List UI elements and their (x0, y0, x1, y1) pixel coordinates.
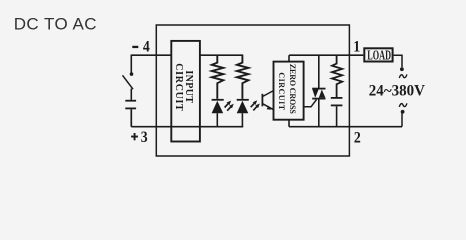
wire switch to battery (130, 89, 132, 100)
svg-text:1: 1 (353, 38, 360, 55)
input circuit block (171, 41, 200, 142)
resistor R2 (237, 55, 249, 99)
LED D2 triangle (237, 101, 249, 114)
AC source bottom dot (401, 110, 405, 114)
resistor R1 (212, 55, 224, 99)
snubber capacitor C1 bottom plate (331, 105, 343, 107)
wire capacitor to bottom rail (336, 106, 338, 126)
triac T1 gate wire (304, 100, 317, 107)
wire bottom DC rail over box (171, 126, 200, 128)
triac T1 cathode wire (318, 100, 320, 127)
LED D1 cathode bar (212, 99, 224, 101)
AC source top dot (400, 67, 404, 71)
phototransistor Q1 base bar (262, 94, 264, 107)
load label (367, 49, 391, 64)
wire battery to bottom rail (131, 109, 243, 126)
svg-text:LOAD: LOAD (367, 49, 391, 64)
bottom AC rail (289, 126, 402, 128)
label terminal 2 (354, 130, 361, 147)
label terminal 3 (+ 3) (131, 129, 148, 146)
LED D2 emission arrows to optocoupler (251, 100, 260, 110)
snubber resistor R3 (332, 55, 342, 97)
wire LED D2 to bottom rail (241, 113, 243, 127)
input circuit label (173, 63, 194, 111)
wire AC source to bottom rail (401, 112, 403, 127)
phototransistor Q1 emitter with arrow (263, 104, 274, 110)
AC source top tilde (399, 74, 407, 78)
title DC TO AC (14, 15, 97, 34)
SSR outline box (156, 25, 349, 156)
zero cross circuit label (277, 64, 297, 115)
LED D1 emission arrows (225, 101, 234, 111)
wire terminal 4 to input circuit (top DC rail) (131, 54, 243, 56)
phototransistor Q1 collector (263, 91, 274, 97)
battery plate bottom (125, 108, 136, 110)
svg-text:2: 2 (354, 130, 361, 147)
triac T1 right triangle (319, 90, 326, 98)
AC source bottom tilde (399, 103, 407, 107)
triac T1 bottom bar (312, 98, 325, 100)
zero cross circuit block (274, 62, 304, 120)
label terminal 4 (- 4) (132, 39, 149, 56)
label terminal 1 (353, 38, 360, 55)
LED D2 cathode bar (237, 99, 249, 101)
wire switch drop (130, 55, 132, 73)
svg-text:24~380V: 24~380V (369, 82, 426, 99)
wire zero cross bottom stub (288, 120, 290, 127)
switch contact dot (130, 72, 134, 76)
switch S1 blade (123, 75, 134, 89)
svg-text:ZERO CROSSCIRCUIT: ZERO CROSSCIRCUIT (277, 64, 297, 115)
wire load to AC source corner (394, 55, 402, 67)
label 24~380V (369, 82, 426, 99)
svg-text:DC TO AC: DC TO AC (14, 15, 97, 34)
wire zero cross top to AC top rail (289, 55, 363, 61)
svg-text:3: 3 (141, 129, 148, 146)
triac T1 anode wire (318, 55, 320, 88)
battery plate top (125, 100, 136, 102)
wire LED D1 to bottom rail (216, 113, 218, 127)
snubber capacitor C1 top plate (331, 97, 343, 99)
triac T1 top bar (312, 88, 325, 90)
triac T1 left triangle (312, 90, 318, 98)
LED D1 triangle (212, 101, 224, 114)
load box (364, 48, 392, 61)
svg-text:4: 4 (143, 39, 150, 56)
